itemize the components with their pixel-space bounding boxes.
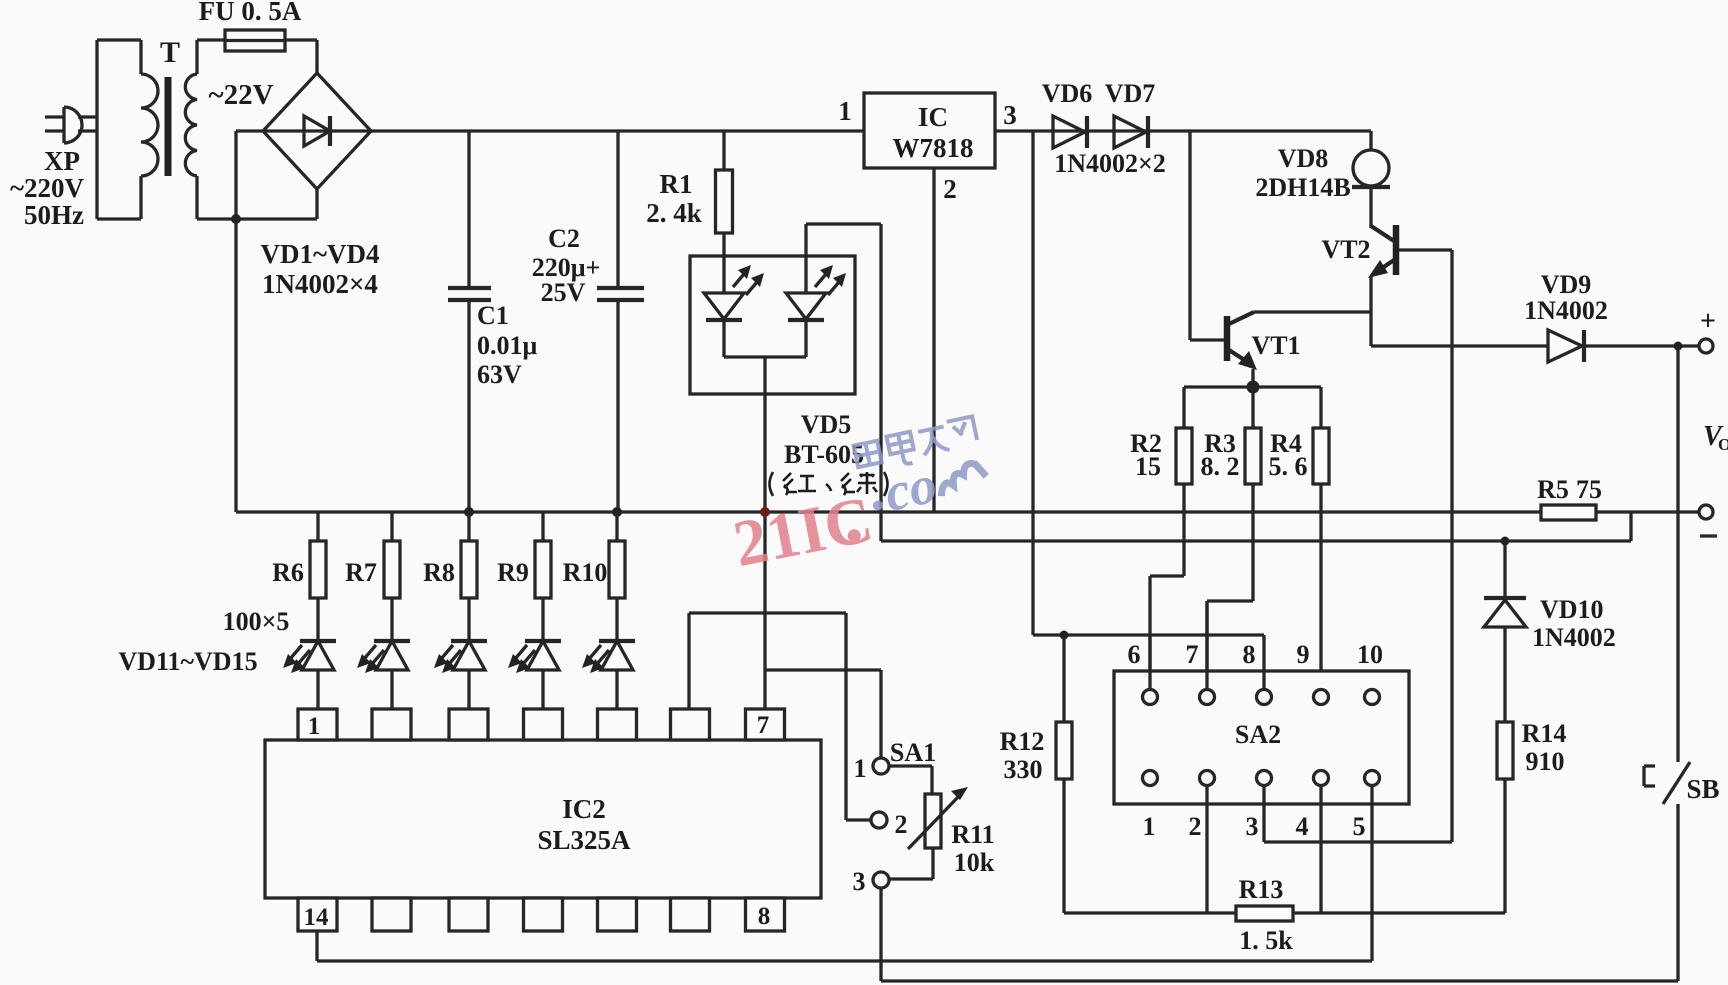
svg-text:3: 3: [853, 867, 866, 896]
label VD6: [1042, 79, 1093, 108]
switch SA1 contact 1: [873, 758, 889, 774]
pin tab bottom 6: [671, 898, 710, 931]
svg-text:R1: R1: [660, 169, 693, 199]
switch SA2 top contact 8: [1257, 690, 1272, 705]
LED VD5 green element: [786, 224, 846, 357]
svg-text:SL325A: SL325A: [537, 825, 631, 855]
switch SA2 top contact 9: [1314, 690, 1329, 705]
label VD11~VD15: [118, 647, 257, 676]
pin tab bottom 7: [746, 898, 785, 931]
svg-text:R10: R10: [563, 558, 608, 587]
node VT1 emitter junction: [1247, 381, 1260, 394]
label VD8 2DH14B: [1255, 144, 1350, 202]
svg-text:2. 4k: 2. 4k: [646, 198, 702, 228]
wire pin3 output: [995, 129, 1371, 132]
svg-text:VT1: VT1: [1251, 331, 1300, 360]
diode VD9: [1548, 330, 1584, 362]
svg-text:R7: R7: [345, 558, 377, 587]
plug XP: [45, 107, 97, 143]
svg-text:VD11~VD15: VD11~VD15: [118, 647, 257, 676]
svg-text:6: 6: [1128, 640, 1141, 669]
transformer T primary winding: [141, 74, 158, 176]
pin 3 label: [1003, 100, 1017, 130]
switch SA1 contact 3: [873, 872, 889, 888]
resistor R3: [1207, 428, 1261, 690]
label R4 5.6: [1269, 429, 1308, 481]
svg-text:4: 4: [1296, 812, 1309, 841]
wire fuse to bridge: [285, 40, 317, 73]
wire secondary bottom: [197, 176, 317, 219]
pin tab top 6: [671, 709, 710, 740]
svg-text:R11: R11: [951, 820, 994, 849]
wire SA1 contact2 riser: [846, 613, 871, 820]
transformer core: [165, 77, 172, 176]
svg-text:7: 7: [1186, 640, 1199, 669]
bridge rectifier VD1~VD4: [263, 73, 371, 189]
resistor R2: [1150, 428, 1192, 690]
label T: [160, 36, 180, 69]
pin tab bottom 1: [298, 898, 337, 931]
svg-text:25V: 25V: [541, 278, 586, 307]
wire primary loop: [97, 40, 141, 219]
label 7: [1186, 640, 1199, 669]
transistor Q2 VT2: [1368, 225, 1452, 842]
label ~22V: [208, 79, 273, 111]
diode VD7: [1114, 116, 1148, 148]
resistor R14: [1497, 627, 1513, 913]
label VT1: [1251, 331, 1300, 360]
label R10: [563, 558, 608, 587]
svg-text:1N4002×4: 1N4002×4: [262, 269, 378, 299]
wire VD5 loop to lower bus: [806, 224, 881, 541]
LED VD5 red element: [704, 265, 764, 357]
svg-text:1: 1: [308, 713, 321, 740]
label SB: [1686, 774, 1719, 804]
node C2/R10 bus junction: [612, 507, 622, 517]
label 1N4002x2: [1054, 149, 1166, 178]
pin 1 label: [308, 713, 321, 740]
svg-text:1N4002×2: 1N4002×2: [1054, 149, 1166, 178]
label SA1: [890, 738, 936, 767]
svg-text:R13: R13: [1239, 875, 1284, 904]
svg-text:14: 14: [304, 904, 330, 931]
label 8: [1243, 640, 1256, 669]
svg-text:8: 8: [1243, 640, 1256, 669]
svg-text:VD9: VD9: [1541, 270, 1592, 299]
svg-text:R6: R6: [272, 558, 304, 587]
op-amp U1 IC W7818 box: [864, 93, 995, 168]
label 6: [1128, 640, 1141, 669]
transistor Q1 VT1: [1190, 131, 1371, 387]
svg-text:2: 2: [1189, 812, 1202, 841]
wire R11 to contact3: [889, 848, 933, 879]
svg-text:R14: R14: [1522, 719, 1567, 748]
switch SA2 top contact 7: [1200, 690, 1215, 705]
svg-text:50Hz: 50Hz: [24, 200, 84, 230]
pin tab top 1: [298, 709, 337, 740]
svg-text:1. 5k: 1. 5k: [1239, 926, 1293, 955]
svg-text:75: 75: [1576, 475, 1602, 504]
label 2: [1189, 812, 1202, 841]
svg-text:XP: XP: [44, 146, 80, 176]
resistor R7: [384, 512, 400, 641]
wire SA2 pin3 to VT2 base: [1264, 786, 1452, 842]
svg-text:1: 1: [838, 96, 852, 126]
label FU 0.5A: [199, 0, 302, 26]
wire pin6 link: [689, 613, 846, 709]
switch SB: [1644, 346, 1690, 981]
svg-text:1N4002: 1N4002: [1524, 296, 1608, 325]
switch SA2 bottom contact 1: [1143, 771, 1158, 786]
switch SA2 bottom contact 3: [1257, 771, 1272, 786]
pin tab top 7: [746, 709, 785, 740]
node R12 tap: [1060, 631, 1069, 640]
svg-text:C1: C1: [477, 301, 509, 330]
svg-text:2: 2: [943, 174, 957, 204]
node VD5 bus junction: [760, 507, 770, 517]
label VD9 1N4002: [1524, 270, 1608, 325]
svg-text:10: 10: [1357, 640, 1383, 669]
switch SA2 bottom contact 4: [1314, 771, 1329, 786]
LED VD15: [582, 641, 635, 709]
label R3 8.2: [1201, 429, 1240, 481]
svg-text:~220V: ~220V: [10, 173, 85, 203]
label 10: [1357, 640, 1383, 669]
resistor R8: [461, 512, 477, 641]
svg-text:VD5: VD5: [801, 410, 852, 439]
label VD7: [1105, 79, 1156, 108]
watermark com blue: [865, 443, 992, 526]
resistor R1: [716, 131, 733, 293]
switch SA2 top contact 10: [1365, 690, 1380, 705]
capacitor C1: [448, 131, 491, 512]
pin tab top 2: [372, 709, 411, 740]
svg-text:SA1: SA1: [890, 738, 936, 767]
svg-text:R8: R8: [423, 558, 455, 587]
pin 7 label: [757, 712, 770, 739]
node SB tap junction: [1674, 342, 1683, 351]
pin 14 label: [304, 904, 330, 931]
pin tab top 4: [524, 709, 563, 740]
wire SA1 contact1 link: [765, 670, 881, 758]
label R13 1.5k: [1239, 875, 1294, 955]
label SA2: [1235, 720, 1281, 749]
LED VD14: [508, 641, 561, 709]
wire top DC bus: [371, 129, 864, 132]
switch SA2 top contact 6: [1143, 690, 1158, 705]
svg-text:R9: R9: [497, 558, 529, 587]
svg-text:100×5: 100×5: [223, 607, 290, 636]
svg-text:T: T: [160, 36, 180, 69]
resistor R12: [1056, 635, 1072, 913]
label R12 330: [1000, 727, 1045, 784]
wire VD5 cathode join: [724, 355, 806, 358]
svg-text:IC: IC: [918, 102, 948, 132]
node - terminal: [1699, 505, 1717, 536]
label VT2: [1321, 235, 1370, 264]
label R8: [423, 558, 455, 587]
label contact 3: [853, 867, 866, 896]
label 5: [1353, 812, 1366, 841]
svg-text:VD1~VD4: VD1~VD4: [260, 239, 379, 269]
svg-text:SA2: SA2: [1235, 720, 1281, 749]
diode VD10: [1484, 541, 1526, 627]
wire R2R3R4 top rail: [1184, 387, 1321, 428]
svg-text:FU 0. 5A: FU 0. 5A: [199, 0, 302, 26]
LED VD11: [283, 641, 336, 709]
label C2 220u+ 25V: [532, 224, 601, 307]
svg-text:1: 1: [854, 754, 867, 783]
transformer secondary winding: [185, 74, 197, 176]
diode VD8 2DH14B: [1352, 131, 1390, 228]
diode VD6: [1053, 116, 1087, 148]
svg-text:R5: R5: [1537, 475, 1569, 504]
svg-text:5. 6: 5. 6: [1269, 452, 1308, 481]
svg-text:7: 7: [757, 712, 770, 739]
wire pin14 to SA2 pin5: [317, 959, 1372, 962]
label Vo: [1703, 421, 1728, 454]
pin 8 label: [758, 903, 771, 930]
svg-text:VD7: VD7: [1105, 79, 1156, 108]
resistor R9: [535, 512, 551, 641]
svg-text:~22V: ~22V: [208, 79, 273, 111]
svg-text:3: 3: [1246, 812, 1259, 841]
label (hong, lv) red green: [770, 472, 888, 496]
label contact 1: [854, 754, 867, 783]
wire contact1 to R11: [889, 766, 932, 794]
switch SA2 bottom contact 5: [1365, 771, 1380, 786]
label 100x5: [223, 607, 290, 636]
svg-text:O: O: [1718, 435, 1728, 454]
node C1/R8 bus junction: [464, 507, 474, 517]
svg-text:2: 2: [895, 810, 908, 839]
wire SA2 pin5 down: [1370, 786, 1373, 961]
label R7: [345, 558, 377, 587]
wire bridge bottom vertex: [315, 189, 318, 219]
label R6: [272, 558, 304, 587]
wire upper minus bus: [236, 510, 1541, 513]
watermark 21IC red: [728, 483, 879, 581]
wire SA2 pin6 stub: [1148, 635, 1151, 690]
svg-text:2DH14B: 2DH14B: [1255, 173, 1350, 202]
wire VD5 center down to IC2 pin7: [763, 357, 766, 709]
node + terminal: [1699, 306, 1716, 353]
svg-text:8: 8: [758, 903, 771, 930]
wire VT2 emitter to VD9: [1371, 344, 1548, 347]
svg-text:9: 9: [1297, 640, 1310, 669]
label C1 0.01u 63V: [477, 301, 538, 389]
label VD10 1N4002: [1532, 595, 1616, 652]
switch SA1 contact 2: [871, 812, 887, 828]
wire SA2 pin8 stub: [1262, 635, 1265, 690]
svg-text:330: 330: [1004, 755, 1043, 784]
svg-text:W7818: W7818: [893, 133, 974, 163]
svg-text:SB: SB: [1686, 774, 1719, 804]
svg-text:R12: R12: [1000, 727, 1045, 756]
potentiometer R11: [908, 787, 968, 849]
svg-text:VT2: VT2: [1321, 235, 1370, 264]
pin tab top 5: [598, 709, 637, 740]
label VD1~VD4 1N4002x4: [260, 239, 379, 299]
svg-text:10k: 10k: [954, 848, 995, 877]
pin tab bottom 5: [598, 898, 637, 931]
resistor R4: [1313, 428, 1329, 690]
resistor R10: [609, 512, 625, 641]
watermark cn blue: [853, 416, 979, 474]
label 3: [1246, 812, 1259, 841]
label VD5 BT-605: [784, 410, 864, 469]
svg-text:1N4002: 1N4002: [1532, 623, 1616, 652]
node junction secondary/left-vertex: [231, 214, 241, 224]
svg-text:VD8: VD8: [1278, 144, 1329, 173]
node VD10 bus junction: [1501, 537, 1510, 546]
svg-text:1: 1: [1143, 812, 1156, 841]
label R9: [497, 558, 529, 587]
LED VD12: [357, 641, 410, 709]
pin 1 label: [838, 96, 852, 126]
svg-text:910: 910: [1526, 747, 1565, 776]
switch SA2 box: [1114, 671, 1409, 804]
svg-text:5: 5: [1353, 812, 1366, 841]
svg-text:IC2: IC2: [562, 794, 606, 824]
label R1 2.4k: [646, 169, 702, 228]
resistor R13: [1064, 906, 1505, 921]
wire lower bus: [881, 512, 1631, 541]
wire SA2 pin2 down: [1205, 786, 1208, 913]
wire SA1-3 to SB: [881, 979, 1678, 982]
wire SA2 pin4 down: [1319, 786, 1322, 913]
svg-text:3: 3: [1003, 100, 1017, 130]
label R5 75: [1537, 475, 1602, 504]
pin tab bottom 4: [524, 898, 563, 931]
resistor R6: [310, 512, 326, 641]
pin 2 wire: [932, 168, 935, 512]
wire to + terminal: [1584, 344, 1699, 347]
svg-text:C2: C2: [548, 224, 580, 253]
resistor R5: [1541, 505, 1699, 520]
wire pin14 down: [315, 931, 318, 961]
svg-text:15: 15: [1135, 452, 1161, 481]
LED VD5 box: [690, 256, 855, 394]
fuse FU: [225, 30, 285, 51]
label XP ~220V 50Hz: [10, 146, 85, 230]
label 4: [1296, 812, 1309, 841]
capacitor C2: [597, 131, 644, 512]
svg-text:VD10: VD10: [1540, 595, 1604, 624]
wire VD6 input tap down to SA2 pin8: [1033, 131, 1264, 635]
pin tab bottom 2: [372, 898, 411, 931]
pin tab top 3: [449, 709, 488, 740]
label R2 15: [1130, 429, 1162, 481]
label contact 2: [895, 810, 908, 839]
svg-text:8. 2: 8. 2: [1201, 452, 1240, 481]
wire bridge left vertex down to bus: [236, 131, 263, 512]
wire SA2 pin7 stub: [1205, 601, 1208, 690]
switch SA2 bottom contact 2: [1200, 771, 1215, 786]
svg-text:+: +: [1700, 306, 1716, 337]
svg-text:63V: 63V: [477, 360, 522, 389]
label 9: [1297, 640, 1310, 669]
pin tab bottom 3: [449, 898, 488, 931]
label R14 910: [1522, 719, 1567, 776]
LED VD13: [434, 641, 487, 709]
label 1: [1143, 812, 1156, 841]
wire secondary top to fuse: [197, 40, 225, 74]
wire contact3 down: [879, 888, 882, 981]
svg-text:VD6: VD6: [1042, 79, 1093, 108]
op-amp U2 IC2 SL325A box: [265, 740, 821, 898]
label R11 10k: [951, 820, 994, 877]
svg-text:0.01μ: 0.01μ: [477, 331, 538, 360]
pin 2 label: [943, 174, 957, 204]
